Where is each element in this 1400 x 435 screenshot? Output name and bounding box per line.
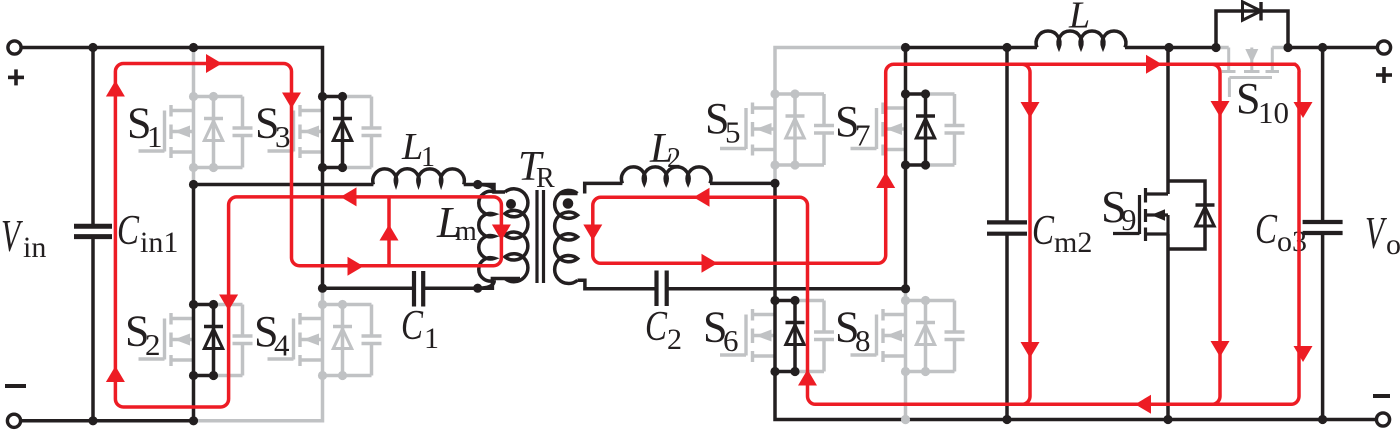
wire: C1 branch from node B [323, 286, 415, 290]
junction: S7 leg top [901, 43, 910, 52]
label: S2 [125, 307, 161, 363]
svg-text:8: 8 [855, 323, 871, 358]
label: S7 [835, 97, 871, 153]
label: S1 [127, 99, 163, 155]
wire: S1 drain lead (gray) [192, 48, 196, 97]
inductor L1 [373, 169, 465, 185]
svg-text:1: 1 [421, 142, 435, 173]
transformer TR secondary polarity dot [563, 198, 574, 209]
arrow: Lm branch up [380, 225, 399, 241]
wire: S2 source to bottom rail [192, 376, 196, 421]
svg-text:C: C [117, 208, 140, 254]
arrow: S10 path down (lower) [1211, 341, 1230, 357]
wire: top-right rail S10 to Vo+ terminal [1288, 46, 1384, 50]
junction: S8 source on output bottom rail [901, 415, 910, 424]
junction: S1 leg top [189, 43, 198, 52]
wire: S8 drain lead (gray) [904, 289, 908, 301]
transistor S10: gray MOSFET symbol (horizontal) [1216, 48, 1288, 98]
junction: Cm2 top [1002, 43, 1011, 52]
label: Vin [1, 210, 46, 264]
arrow: S10 path down (upper) [1211, 101, 1230, 117]
wire: S4 drain lead (gray) [321, 288, 325, 304]
label: S3 [255, 99, 291, 155]
arrow: secondary loop up at S6 [798, 370, 817, 386]
arrow: output loop east on top [1146, 55, 1162, 74]
capacitor Cm2 [1005, 48, 1009, 223]
diode of S5 (antiparallel body diode branch) [770, 89, 804, 169]
diode of S4 (antiparallel body diode branch) [318, 300, 352, 380]
svg-text:5: 5 [725, 115, 741, 150]
wire: S2 drain from midpoint [192, 185, 196, 305]
transistor S4 (MOSFET symbol with snubber capacitor) [268, 305, 382, 376]
capacitor C1 [412, 271, 416, 307]
junction: S10 left node [1211, 43, 1220, 52]
junction: S8 source gray dot over rail [901, 415, 910, 424]
svg-text:C: C [645, 304, 668, 350]
transformer TR secondary winding with leads [560, 192, 578, 196]
svg-text:9: 9 [1121, 202, 1137, 237]
arrow: Lm loop west on top [341, 187, 357, 206]
svg-text:L: L [401, 126, 423, 168]
wire: L1 to transformer node [464, 183, 478, 187]
transistor S3 (MOSFET symbol with snubber capacitor) [268, 97, 382, 168]
inductor L2 [621, 167, 710, 184]
svg-text:2: 2 [145, 327, 161, 362]
svg-text:S: S [1236, 74, 1260, 123]
wire: S4 source lead and gray bottom rail to S2 leg [197, 376, 323, 421]
transistor S6 (MOSFET symbol with snubber capacitor) [720, 301, 834, 372]
diode: S10 bypass diode branch [1216, 11, 1288, 48]
svg-text:2: 2 [667, 143, 681, 174]
transistor S8 (MOSFET symbol with snubber capacitor) [851, 301, 965, 372]
transformer TR core [535, 190, 538, 283]
wire: L2 to S5/S6 midpoint [710, 182, 775, 186]
wire: C2 to S7/S8 midpoint [667, 287, 906, 291]
capacitor C2 [654, 271, 658, 307]
wire: S7 source down to node D [904, 165, 908, 289]
arrow: return path west on bottom [1135, 395, 1151, 414]
svg-text:V: V [1, 210, 23, 261]
terminal: Vin negative [7, 414, 20, 427]
label: plus sign at Vo [1376, 73, 1392, 77]
svg-text:in1: in1 [140, 226, 178, 259]
label: Vo [1365, 207, 1400, 261]
arrow: Lm loop east on bottom [348, 257, 364, 276]
transistor S9: MOSFET symbol [1113, 48, 1168, 420]
arrow: secondary loop east on bottom [702, 254, 718, 273]
wire: S7 drain from top rail [904, 48, 908, 95]
inductor Lm (magnetizing) with leads [478, 185, 495, 193]
diode: S9 body diode branch [1168, 181, 1205, 249]
wire: red Lm branch divider [387, 197, 391, 266]
label: L2 [649, 126, 681, 174]
svg-text:10: 10 [1258, 95, 1289, 130]
junction: S1/S2 midpoint node A [189, 180, 198, 189]
svg-text:2: 2 [667, 323, 682, 356]
arrow: secondary loop down at transformer [583, 225, 602, 241]
capacitor Co3 [1321, 48, 1325, 223]
label: L1 [401, 126, 435, 173]
diode of S3 (antiparallel body diode branch) [318, 92, 352, 172]
wire: S5 source lead [773, 165, 777, 181]
wire: top-left rail from Vin+ terminal to S3 leg, turning down to S3 [15, 48, 323, 97]
wire: S6 source to bottom-right rail and rail to Vo- terminal [775, 372, 1383, 420]
wire: bottom-left rail from Vin- terminal to S2 leg [14, 419, 197, 423]
transistor S7 (MOSFET symbol with snubber capacitor) [851, 94, 965, 165]
svg-text:m: m [455, 216, 477, 247]
transformer TR primary polarity dot [506, 199, 516, 209]
wire: secondary top lead step up to L2 [585, 183, 623, 193]
wire: L to S10 [1125, 46, 1216, 50]
label: S8 [835, 303, 871, 359]
wire: S6 drain from node C [773, 183, 777, 300]
arrow: input loop up (top left) [106, 81, 125, 97]
junction: S9 drain top [1164, 43, 1173, 52]
svg-text:in: in [23, 231, 46, 264]
label: S5 [705, 94, 741, 150]
svg-text:L: L [1068, 0, 1090, 37]
svg-text:1: 1 [147, 119, 163, 154]
svg-text:3: 3 [275, 119, 291, 154]
svg-text:1: 1 [424, 322, 439, 355]
label: Cm2 [1032, 208, 1092, 259]
label: minus sign at Vo [1373, 394, 1390, 398]
junction: Co3 bottom [1318, 415, 1327, 424]
arrow: Cm2 path down (upper) [1021, 102, 1040, 118]
terminal: Vo negative [1376, 413, 1389, 426]
label: plus sign at Vin [8, 76, 24, 80]
arrow: output path down (lower) [1294, 346, 1313, 362]
terminal: Vo positive [1377, 41, 1390, 54]
arrow: Cm2 path down (lower) [1021, 342, 1040, 358]
arrow: Lm winding current down [492, 225, 511, 241]
wire: S8 source lead (gray) [904, 372, 908, 420]
label: minus sign at Vin [5, 384, 26, 388]
label: S9 [1101, 181, 1137, 237]
transformer TR primary winding with leads [478, 185, 505, 193]
arrow: output path down (upper) [1294, 102, 1313, 118]
svg-text:C: C [401, 303, 424, 349]
junction: Cin1 bottom [88, 416, 97, 425]
junction: S9 leg bottom [1163, 415, 1172, 424]
label: C1 [401, 303, 439, 355]
label: C2 [645, 304, 682, 356]
label: S10 [1236, 74, 1289, 130]
wire: C1 to primary bottom node [423, 286, 478, 290]
svg-text:o: o [1386, 228, 1400, 261]
svg-text:m2: m2 [1054, 226, 1092, 259]
label: Cin1 [117, 208, 178, 259]
svg-text:4: 4 [274, 328, 290, 363]
junction: S3/S4 midpoint node B [318, 284, 327, 293]
arrow: input loop down at S2 [219, 295, 238, 311]
label: Lm [436, 198, 477, 247]
terminal: Vin positive [8, 41, 21, 54]
wire: red branch through Cm2 path [1022, 64, 1030, 404]
wire: gray top rail of secondary bridge and S5 drain lead [775, 48, 906, 95]
junction: S7/S8 midpoint node D [901, 284, 910, 293]
svg-text:7: 7 [855, 118, 871, 153]
diode of S7 (antiparallel body diode branch) [901, 89, 935, 169]
arrow: secondary loop west on top [694, 188, 710, 207]
inductor L1 wire from node A [194, 183, 374, 187]
junction: S10 right node [1283, 43, 1292, 52]
label: S6 [703, 303, 739, 359]
junction: primary bottom node [473, 284, 482, 293]
junction: Cin1 top [88, 43, 97, 52]
label: S4 [254, 307, 290, 363]
label: TR [518, 144, 555, 194]
svg-text:6: 6 [723, 323, 739, 358]
arrow: input loop up (bottom left) [106, 366, 125, 382]
inductor L (output filter) [1036, 31, 1126, 47]
transistor S1 (MOSFET symbol with snubber capacitor) [139, 97, 253, 168]
wire: red current loop of input bridge (closed path) [115, 64, 501, 408]
diode of S6 (antiparallel body diode branch) [770, 296, 804, 376]
svg-text:C: C [1255, 207, 1278, 253]
arrow: input loop down at S3 [282, 93, 301, 109]
junction: S5/S6 midpoint node C [770, 179, 779, 188]
wire: S1 source lead (gray) [192, 168, 196, 183]
junction: Co3 top [1318, 43, 1327, 52]
wire: red current loop of secondary side and output (closed path) [593, 64, 1299, 404]
wire: C2 branch [600, 287, 657, 291]
diode of S1 (antiparallel body diode branch) [189, 92, 223, 172]
junction: S2 leg bottom [189, 416, 198, 425]
svg-text:C: C [1032, 208, 1055, 254]
arrow: input loop east on top [206, 54, 222, 73]
transistor S5 (MOSFET symbol with snubber capacitor) [720, 94, 834, 165]
diode of S2 (antiparallel body diode branch) [189, 300, 223, 380]
wire: top-right rail S7 leg to S10 [906, 46, 1038, 50]
wire: S3 source down to C1 node [321, 168, 325, 289]
junction: primary top node [473, 180, 482, 189]
transistor S2 (MOSFET symbol with snubber capacitor) [139, 305, 253, 376]
svg-text:o3: o3 [1277, 225, 1307, 258]
svg-text:R: R [536, 163, 555, 194]
svg-text:V: V [1365, 207, 1387, 258]
capacitor Cin1 [91, 48, 95, 227]
wire: red branch through S10 path [1212, 64, 1220, 404]
diode of S8 (antiparallel body diode branch) [901, 296, 935, 376]
arrow: secondary loop up at S7 [876, 172, 895, 188]
label: Co3 [1255, 207, 1307, 258]
junction: Cm2 bottom [1002, 415, 1011, 424]
